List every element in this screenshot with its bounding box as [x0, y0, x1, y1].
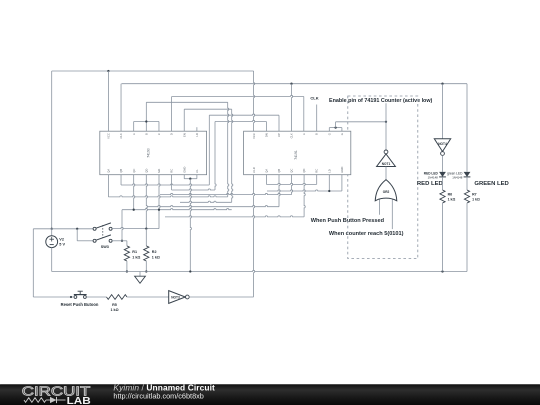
- wire red LED to R6: [442, 177, 444, 190]
- wire riser x209: [208, 115, 210, 185]
- wire R6 down: [442, 203, 444, 272]
- svg-text:A: A: [132, 133, 136, 135]
- wire IC1 pin8 stub: [196, 127, 198, 131]
- wire trunk y102 from IC1 pin4: [146, 101, 227, 103]
- wire NOT1 to OR2: [385, 167, 387, 181]
- svg-text:When counter reach 5(0101): When counter reach 5(0101): [329, 231, 404, 237]
- node CLK junction IC2 pin4: [290, 83, 292, 85]
- svg-text:QC: QC: [132, 169, 136, 173]
- svg-text:QA: QA: [264, 169, 268, 173]
- wire IC2 pin4 drop: [292, 84, 293, 132]
- wire riser x231: [232, 109, 233, 202]
- svg-text:C: C: [157, 133, 161, 135]
- wire bottom pole line: [112, 240, 127, 242]
- wire main bottom trunk: [52, 270, 467, 271]
- svg-text:D: D: [170, 133, 174, 135]
- wire GND drop x190: [190, 179, 191, 272]
- wire row y194 IC2 pin4: [292, 175, 293, 195]
- svg-text:DN: DN: [264, 133, 268, 137]
- wire row y191 IC2 pins7+8: [328, 175, 330, 191]
- wire IC1 pin1 drop: [107, 71, 109, 131]
- svg-text:G: G: [327, 133, 331, 135]
- wire enable trunk to NOT1: [336, 121, 386, 123]
- wire OR2 input right / net label: [391, 200, 393, 230]
- svg-text:OR2: OR2: [383, 190, 390, 194]
- inverter NOT3: [169, 291, 186, 304]
- node enable junction: [385, 121, 387, 123]
- svg-text:B: B: [144, 133, 148, 135]
- svg-text:LAB: LAB: [67, 396, 91, 405]
- svg-text:http://circuitlab.com/c6bt8xb: http://circuitlab.com/c6bt8xb: [113, 391, 203, 400]
- svg-text:B: B: [315, 133, 319, 135]
- wire row y185 IC1 pin2: [120, 175, 122, 185]
- wire row y217 IC2 pin5: [304, 175, 305, 217]
- svg-text:CL: CL: [195, 169, 199, 173]
- wire switch feed: [33, 228, 93, 230]
- svg-text:GND: GND: [182, 167, 186, 173]
- svg-text:1N4148: 1N4148: [428, 176, 439, 180]
- resistor R7: [464, 190, 469, 203]
- inverter NOT4: [434, 139, 450, 152]
- wire green LED to R7: [466, 177, 468, 190]
- wire button to R5: [86, 296, 106, 298]
- resistor R2: [145, 229, 147, 246]
- svg-text:1 kΩ: 1 kΩ: [152, 255, 160, 259]
- svg-text:CLK: CLK: [119, 133, 123, 138]
- counter U1 74190: [100, 131, 207, 175]
- svg-text:RED LED: RED LED: [417, 181, 443, 187]
- wire R5 to NOT3: [127, 296, 169, 298]
- svg-text:QC: QC: [290, 169, 294, 173]
- inverter NOT1: [384, 150, 388, 154]
- svg-text:QB: QB: [277, 169, 281, 173]
- svg-text:1 kΩ: 1 kΩ: [110, 308, 118, 312]
- wire lower pole feed: [76, 229, 78, 241]
- wire green LED column top: [466, 84, 468, 167]
- svg-text:1N4148: 1N4148: [452, 176, 463, 180]
- svg-text:R1: R1: [132, 250, 137, 254]
- svg-text:LD: LD: [327, 169, 331, 172]
- svg-text:1 kΩ: 1 kΩ: [472, 197, 480, 201]
- svg-text:74191: 74191: [294, 150, 298, 160]
- wire IC1 pin2 riser: [120, 84, 122, 132]
- wire tie IC2 pins2+6: [265, 175, 267, 185]
- svg-text:GREEN LED: GREEN LED: [474, 181, 508, 187]
- counter U2 74191: [244, 131, 351, 175]
- svg-text:A: A: [302, 133, 306, 135]
- or-gate OR2: [375, 180, 397, 201]
- wire top pole line: [112, 227, 159, 228]
- wire V2+ riser: [51, 71, 53, 229]
- diode green LED 1N4148: [464, 172, 471, 177]
- svg-text:Enable pin of 74191 Counter (a: Enable pin of 74191 Counter (active low): [329, 98, 433, 104]
- push button SW reset: [70, 296, 72, 298]
- logo squiggle resistor: [24, 398, 46, 403]
- wire trunk y121: [215, 120, 266, 121]
- node CLK net stub IC2 pin6: [316, 105, 318, 132]
- svg-text:5 V: 5 V: [59, 242, 65, 246]
- svg-text:VCC: VCC: [107, 133, 111, 139]
- wire left rail: [32, 229, 34, 297]
- svg-text:QD: QD: [302, 169, 306, 173]
- wire IC1 pin4 drop to R2: [146, 175, 147, 229]
- wire GND tie IC1 pins7+8: [183, 175, 185, 179]
- wire IC1 pin4 riser: [145, 102, 147, 131]
- logo diode: [46, 399, 50, 401]
- wire riser x215: [215, 122, 216, 191]
- svg-text:NOT4: NOT4: [438, 142, 447, 146]
- wire VCC trunk top: [52, 70, 254, 72]
- svg-text:LD: LD: [195, 133, 199, 136]
- svg-text:1 kΩ: 1 kΩ: [132, 255, 140, 259]
- svg-text:CLK: CLK: [310, 95, 318, 100]
- svg-text:QB: QB: [119, 169, 123, 173]
- svg-text:Reset Push Butoon: Reset Push Butoon: [61, 302, 99, 307]
- svg-text:R2: R2: [152, 250, 157, 254]
- wire trunk y115: [209, 114, 279, 115]
- switch SW3: [93, 227, 96, 230]
- node bottom pole junction: [121, 240, 123, 242]
- resistor R6: [440, 190, 445, 203]
- wire NOT4 feed: [442, 84, 444, 139]
- wire row y209: [122, 209, 232, 210]
- wire V2 bottom: [51, 248, 53, 272]
- wire enable riser: [335, 122, 337, 128]
- voltage source V2: [46, 236, 58, 248]
- wire tie IC1 pins3+5: [134, 121, 159, 123]
- wire R7 down: [466, 203, 468, 272]
- wire NOT3 out: [189, 296, 253, 298]
- svg-text:RC: RC: [170, 169, 174, 173]
- wire OR2 input left / net label: [378, 200, 380, 215]
- svg-text:QD: QD: [144, 169, 148, 173]
- svg-text:GND: GND: [340, 167, 344, 173]
- node VCC junction IC1 pin1: [107, 70, 109, 72]
- svg-text:RC: RC: [315, 169, 319, 173]
- node junction NOT4 column: [441, 83, 443, 85]
- svg-text:VCC: VCC: [252, 133, 256, 139]
- wire bottom pole riser x122: [122, 210, 123, 241]
- wire IC1 pin3 drop: [134, 175, 135, 210]
- resistor R5: [107, 295, 128, 300]
- svg-text:CLR: CLR: [252, 167, 256, 172]
- svg-text:R7: R7: [472, 192, 477, 196]
- wire row y197 IC1 pin1: [107, 175, 109, 197]
- svg-text:74190: 74190: [147, 148, 151, 158]
- wire row y202: [180, 201, 232, 202]
- wire CLK trunk y83: [122, 83, 468, 85]
- wire NOT1 output net: [385, 103, 387, 150]
- svg-text:NOT1: NOT1: [382, 162, 391, 166]
- dashed group box: [348, 96, 418, 259]
- wire row y206 IC2 pin3: [279, 175, 280, 207]
- wire enable tie IC2 pins7+8: [329, 127, 342, 129]
- svg-text:R5: R5: [112, 303, 117, 307]
- wire V2 top stub: [51, 229, 53, 236]
- svg-text:EN: EN: [182, 133, 186, 137]
- svg-text:NOT3: NOT3: [171, 296, 180, 300]
- wire bottom row: [33, 296, 73, 298]
- node V2+ junction: [51, 228, 53, 230]
- wire IC1 pin5 drop: [159, 175, 160, 229]
- wire IC2 pin1 drop: [254, 71, 255, 131]
- svg-text:G: G: [340, 133, 344, 135]
- svg-text:UP: UP: [277, 133, 281, 137]
- svg-text:SW3: SW3: [101, 245, 109, 249]
- svg-text:R6: R6: [448, 192, 453, 196]
- svg-text:CLK: CLK: [290, 133, 294, 138]
- wire trunk y109 from IC1 pin7: [184, 108, 232, 110]
- svg-text:V2: V2: [59, 238, 64, 242]
- resistor R1: [126, 241, 128, 246]
- wire row y190 IC1 pin6: [171, 175, 173, 190]
- wire IC2 pin1 drop to NOT3: [254, 175, 255, 297]
- wire NOT4 to red LED: [442, 155, 444, 172]
- svg-text:MX: MX: [157, 168, 161, 172]
- svg-text:1 kΩ: 1 kΩ: [448, 197, 456, 201]
- diode red LED 1N4148: [439, 172, 446, 177]
- svg-text:QA: QA: [107, 169, 111, 173]
- node tie junction: [145, 120, 147, 122]
- wire riser x227: [228, 102, 229, 197]
- ground: [139, 272, 141, 277]
- wire trunk y96 IC1 pin6 to IC2 pin5: [172, 95, 304, 96]
